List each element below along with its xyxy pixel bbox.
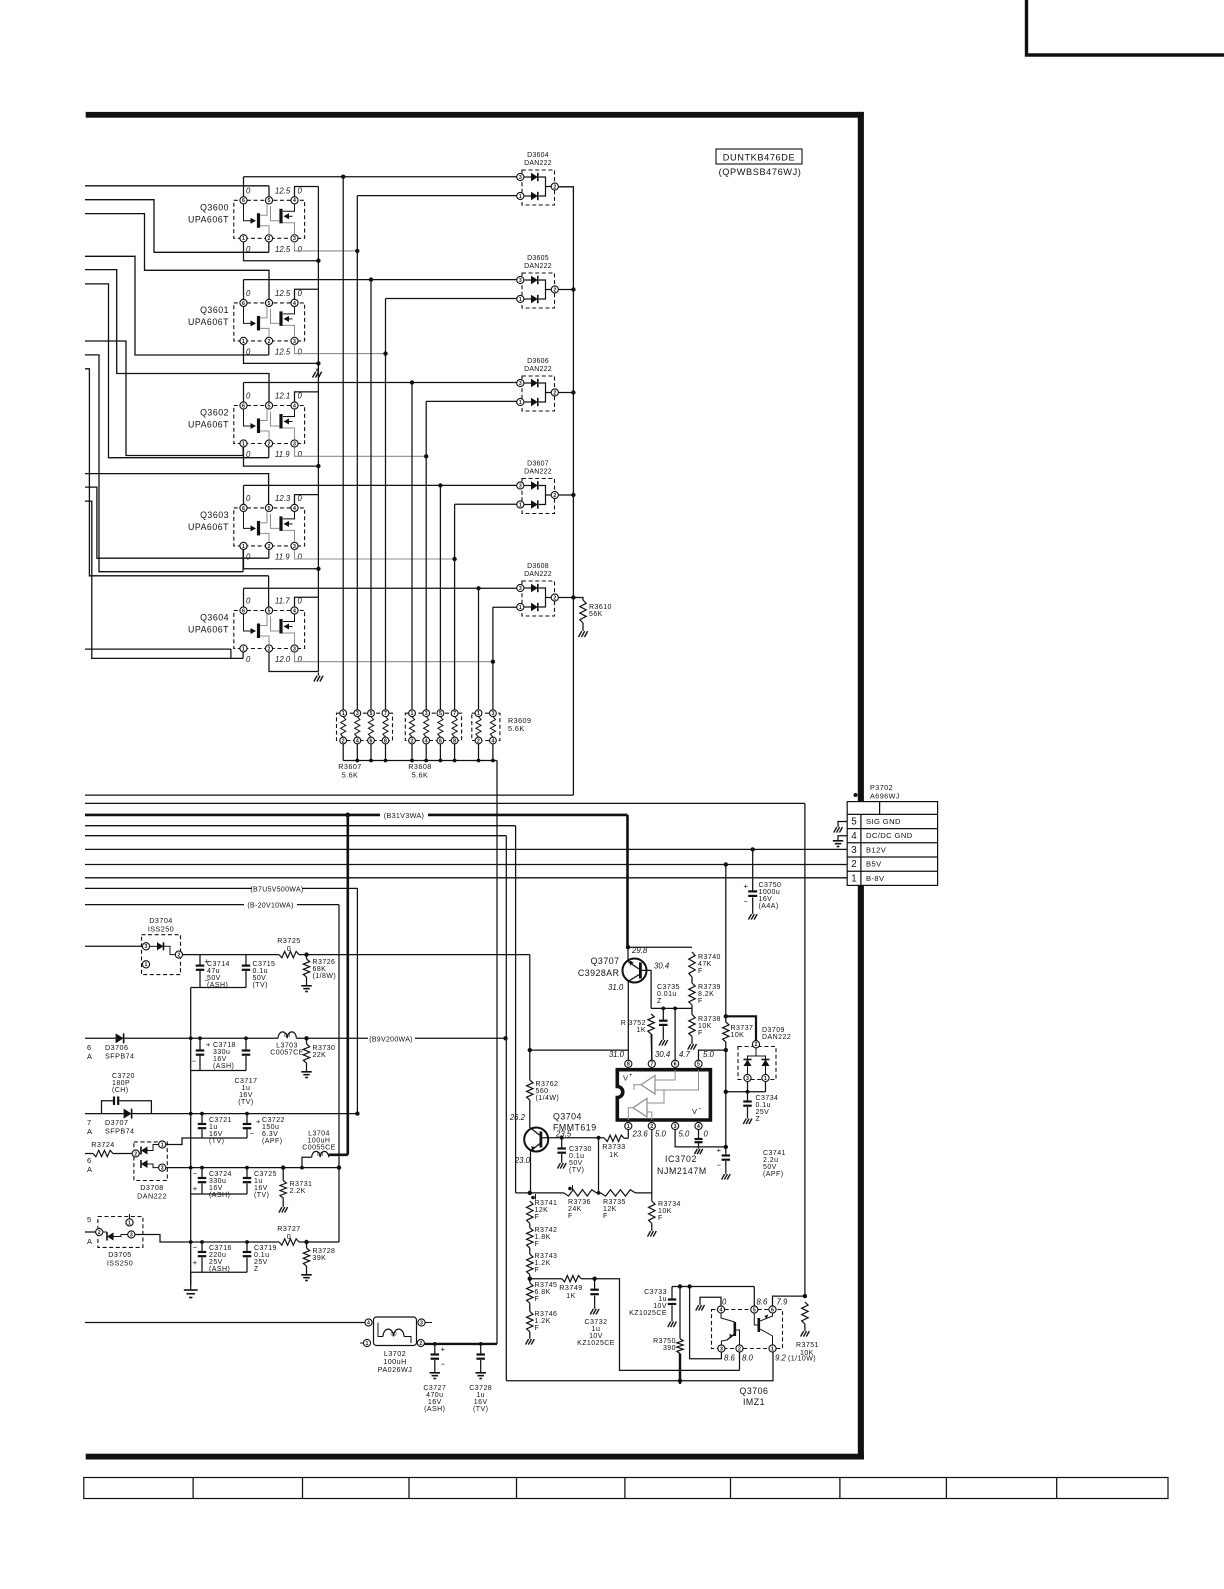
svg-text:00: 00 (390, 1331, 396, 1337)
capacitor C3735 0.01u (662, 1008, 664, 1020)
svg-text:1: 1 (242, 441, 245, 447)
svg-text:5: 5 (439, 711, 442, 717)
svg-text:5.0: 5.0 (679, 1130, 691, 1139)
svg-text:DAN222: DAN222 (524, 366, 552, 373)
capacitor C3732 1u (592, 1277, 596, 1281)
wire B-20V drop (338, 905, 340, 1242)
junction at D3709 feed (724, 1014, 728, 1018)
wire left entry lower to Q3604 area (85, 648, 231, 650)
svg-text:−: − (717, 1161, 722, 1170)
svg-text:−: − (250, 1129, 255, 1138)
svg-text:3: 3 (293, 544, 296, 550)
resistor R3728 39K (304, 1240, 308, 1244)
op-amp IC3702 NJM2147M (617, 1070, 710, 1120)
svg-text:2: 2 (553, 493, 556, 499)
svg-text:UPA606T: UPA606T (188, 625, 229, 635)
svg-text:F: F (603, 1213, 608, 1220)
svg-text:0: 0 (298, 245, 303, 254)
top-right corner box (1027, 0, 1224, 55)
svg-text:1u: 1u (209, 1124, 218, 1131)
svg-text:2: 2 (98, 1230, 101, 1236)
wire R3750 thick lead (679, 1354, 681, 1385)
wire Q3600 pin3 to bus (grey) (295, 242, 358, 251)
svg-text:A: A (87, 1127, 92, 1136)
svg-text:1u: 1u (254, 1178, 263, 1185)
wire D3608 pin2 to output bus (558, 597, 573, 599)
svg-text:6.3V: 6.3V (262, 1131, 278, 1138)
svg-text:6.8K: 6.8K (535, 1289, 551, 1296)
svg-text:1: 1 (128, 1220, 131, 1226)
svg-text:16V: 16V (759, 896, 773, 903)
svg-text:C3727: C3727 (423, 1385, 446, 1392)
svg-text:2: 2 (342, 738, 345, 744)
svg-text:0: 0 (298, 186, 303, 195)
svg-text:1: 1 (242, 646, 245, 652)
resistor R3750 390 (679, 1287, 681, 1339)
svg-text:0: 0 (298, 450, 303, 459)
svg-text:R3745: R3745 (535, 1282, 558, 1289)
diode block D3705 ISS250 (96, 1214, 143, 1247)
svg-text:4: 4 (293, 403, 296, 409)
svg-text:(B-20V10WA): (B-20V10WA) (247, 903, 293, 910)
ground below R3730 (306, 1068, 308, 1072)
svg-text:1K: 1K (609, 1150, 619, 1159)
svg-text:1: 1 (771, 1346, 774, 1352)
svg-text:3: 3 (519, 586, 522, 592)
svg-text:C0057CE: C0057CE (270, 1050, 304, 1057)
svg-text:KZ1025CE: KZ1025CE (629, 1310, 667, 1317)
transistor Q3707 C3928AR (623, 947, 652, 1050)
ground below R3731 (282, 1204, 284, 1207)
wire resistor network bottom bus (343, 745, 497, 763)
annotation dots (531, 1196, 535, 1200)
svg-text:R3731: R3731 (290, 1181, 313, 1188)
svg-text:(TV): (TV) (473, 1406, 488, 1413)
wire Q3604 pin3 to bus (grey) (295, 652, 493, 662)
svg-text:Q3706: Q3706 (740, 1386, 769, 1396)
svg-text:D3709: D3709 (762, 1027, 785, 1034)
resistor R3730 22K (304, 1036, 308, 1040)
wire common gate bus v318 (317, 187, 319, 672)
capacitor C3721 1u (200, 1112, 204, 1116)
wire B5V drop to R3737 (724, 862, 728, 866)
svg-text:150u: 150u (262, 1124, 279, 1131)
wire Q3601 pin4 stub (295, 289, 319, 299)
svg-text:16V: 16V (209, 1131, 223, 1138)
svg-text:C3721: C3721 (209, 1117, 232, 1124)
svg-text:10V: 10V (589, 1333, 603, 1340)
svg-text:2: 2 (650, 1124, 653, 1130)
transistor Q3601 UPA606T block (234, 299, 305, 344)
resistor network R3609 5.6K (472, 709, 500, 744)
svg-text:3: 3 (519, 483, 522, 489)
svg-text:1: 1 (519, 194, 522, 200)
svg-text:330u: 330u (213, 1049, 230, 1056)
svg-text:1K: 1K (566, 1291, 576, 1300)
wire L3702 output row (thick) (424, 1343, 497, 1345)
ground earth at P3702 pin4 (837, 837, 839, 841)
svg-text:11.7: 11.7 (275, 597, 290, 606)
svg-text:(1/8W): (1/8W) (313, 973, 337, 980)
svg-text:50V: 50V (207, 975, 221, 982)
svg-text:470u: 470u (426, 1392, 443, 1399)
svg-text:(TV): (TV) (254, 1192, 269, 1199)
ground below cap column (190, 1285, 192, 1290)
svg-text:330u: 330u (209, 1178, 226, 1185)
svg-text:(TV): (TV) (569, 1167, 584, 1174)
svg-text:1: 1 (627, 1124, 630, 1130)
capacitor C3717 1u (244, 1036, 248, 1040)
svg-text:3: 3 (293, 646, 296, 652)
capacitor C3750 1000u (751, 847, 755, 851)
wire C3721 rail (191, 1113, 358, 1115)
svg-text:7: 7 (384, 711, 387, 717)
svg-text:4: 4 (293, 301, 296, 307)
svg-text:30.4: 30.4 (654, 962, 670, 971)
capacitor C3728 1u (479, 1342, 483, 1346)
svg-text:+: + (256, 1117, 261, 1126)
wire C3733 node row (672, 1286, 754, 1288)
svg-text:1: 1 (161, 1142, 164, 1148)
svg-text:0: 0 (246, 655, 251, 664)
junction dot near P3702 (854, 793, 858, 797)
svg-text:+: + (717, 1146, 722, 1155)
svg-text:R3730: R3730 (313, 1045, 336, 1052)
transistor Q3600 UPA606T block (234, 197, 305, 242)
svg-text:(TV): (TV) (209, 1138, 224, 1145)
inductor L3702 100uH PA026WJ (360, 1317, 432, 1347)
wire rail to diode bus (85, 794, 573, 796)
ground below R3751 (804, 1328, 806, 1331)
svg-text:(QPWBSB476WJ): (QPWBSB476WJ) (719, 167, 802, 177)
resistor R3736 24K (564, 1190, 597, 1196)
wire pin5 stem (753, 1287, 755, 1306)
svg-text:C3728: C3728 (469, 1385, 492, 1392)
svg-text:12.1: 12.1 (275, 392, 290, 401)
svg-text:00: 00 (284, 1033, 290, 1039)
svg-text:0: 0 (246, 186, 251, 195)
svg-text:1: 1 (242, 544, 245, 550)
wire rail to Q3706 loop (85, 835, 506, 837)
svg-text:1: 1 (519, 502, 522, 508)
svg-text:SFPB74: SFPB74 (105, 1127, 134, 1136)
svg-text:47u: 47u (207, 968, 220, 975)
resistor R3727 0 (279, 1239, 299, 1245)
svg-text:4: 4 (425, 738, 428, 744)
junction Q3707 emitter node (626, 945, 630, 949)
svg-text:SIG GND: SIG GND (866, 817, 901, 826)
svg-text:5: 5 (268, 301, 271, 307)
svg-text:1: 1 (477, 711, 480, 717)
svg-text:50V: 50V (763, 1164, 777, 1171)
svg-text:D3604: D3604 (527, 152, 549, 159)
resistor R3726 68K (304, 952, 308, 956)
svg-text:6: 6 (242, 506, 245, 512)
connector P3702 A696WJ (847, 802, 937, 886)
svg-text:KZ1025CE: KZ1025CE (577, 1340, 615, 1347)
ground chassis at P3702 pin5 (837, 824, 839, 827)
svg-text:(TV): (TV) (253, 982, 268, 989)
svg-text:9.2: 9.2 (775, 1354, 787, 1363)
capacitor C3722 150u (245, 1112, 249, 1116)
transistor Q3602 UPA606T block (234, 402, 305, 447)
ground below pin4 (698, 1146, 700, 1149)
svg-text:10K: 10K (658, 1208, 672, 1215)
transistor Q3604 UPA606T block (234, 607, 305, 652)
svg-text:Q3704: Q3704 (553, 1112, 582, 1122)
svg-text:6: 6 (242, 403, 245, 409)
ground below C3730 (561, 1160, 563, 1163)
svg-text:1: 1 (519, 605, 522, 611)
wire cap bottoms C3714/C3715 (191, 987, 246, 989)
svg-text:6: 6 (242, 301, 245, 307)
svg-text:8.6: 8.6 (757, 1298, 769, 1307)
resistor R3752 1K (648, 1014, 654, 1034)
transistor Q3603 UPA606T block (234, 504, 305, 549)
svg-text:C3720: C3720 (112, 1073, 135, 1080)
svg-text:5.6K: 5.6K (412, 771, 429, 780)
svg-text:29.8: 29.8 (631, 946, 648, 955)
wire Q3603 pin6 to D3607 pin3 (243, 485, 245, 504)
svg-text:R3762: R3762 (536, 1081, 559, 1088)
svg-text:2: 2 (134, 1151, 137, 1157)
transistor Q3704 FMMT619 (524, 1128, 562, 1193)
svg-text:2: 2 (411, 738, 414, 744)
resistor R3749 1K (530, 1278, 562, 1280)
page border frame right bar (858, 112, 864, 1460)
svg-text:3: 3 (746, 1076, 749, 1082)
svg-text:16V: 16V (474, 1399, 488, 1406)
svg-text:1.2K: 1.2K (535, 1260, 551, 1267)
resistor R3725 0 (279, 951, 299, 957)
svg-text:DAN222: DAN222 (137, 1192, 167, 1201)
svg-text:7.9: 7.9 (777, 1298, 789, 1307)
svg-text:3: 3 (851, 845, 857, 856)
svg-text:B-8V: B-8V (866, 874, 885, 883)
svg-text:(B9V200WA): (B9V200WA) (369, 1036, 413, 1043)
svg-text:0.1u: 0.1u (756, 1102, 771, 1109)
svg-text:(B7U5V500WA): (B7U5V500WA) (250, 886, 303, 893)
svg-text:1: 1 (764, 1076, 767, 1082)
svg-text:16V: 16V (209, 1185, 223, 1192)
diode block D3709 DAN222 (738, 1041, 776, 1082)
wire C3724 rail (166, 1167, 339, 1169)
svg-text:(APF): (APF) (763, 1171, 784, 1178)
junction B9V to drop (503, 1036, 507, 1040)
svg-text:5: 5 (268, 608, 271, 614)
svg-text:2: 2 (268, 236, 271, 242)
svg-text:2: 2 (553, 287, 556, 293)
svg-text:10K: 10K (800, 1350, 814, 1357)
svg-text:6: 6 (439, 738, 442, 744)
wire D3708 pin1 up to cap row (166, 1138, 191, 1145)
svg-text:1.2K: 1.2K (535, 1318, 551, 1325)
svg-text:3: 3 (420, 1320, 423, 1326)
page border frame top bar (86, 112, 864, 118)
wire B31V thick drop to Q3707 (626, 815, 629, 947)
svg-text:DC/DC GND: DC/DC GND (866, 831, 913, 840)
svg-text:8: 8 (384, 738, 387, 744)
svg-text:R 3752: R 3752 (621, 1020, 646, 1027)
svg-text:1: 1 (242, 236, 245, 242)
svg-text:68K: 68K (313, 966, 327, 973)
svg-text:3: 3 (519, 175, 522, 181)
svg-text:D3605: D3605 (527, 255, 549, 262)
svg-text:DAN222: DAN222 (524, 571, 552, 578)
wire Q3602 pin1 stub (244, 447, 319, 466)
wire pin5 row (699, 1050, 726, 1060)
svg-text:R3728: R3728 (313, 1248, 336, 1255)
wire pin3 row (675, 1130, 726, 1147)
svg-text:3: 3 (356, 711, 359, 717)
wire to R3610 (573, 598, 583, 601)
resistor R3734 10K (649, 1201, 655, 1224)
wire Q3603 pin4 stub (295, 495, 319, 505)
svg-text:2: 2 (851, 859, 856, 870)
svg-text:25V: 25V (209, 1259, 223, 1266)
svg-text:F: F (698, 968, 703, 975)
svg-text:50V: 50V (569, 1160, 583, 1167)
svg-text:8: 8 (453, 738, 456, 744)
wire rail SIG line (85, 802, 805, 804)
ground below R3610 (582, 628, 584, 631)
svg-text:Z: Z (254, 1266, 259, 1273)
resistor network R3608 5.6K (405, 709, 461, 744)
svg-text:4.7: 4.7 (679, 1050, 691, 1059)
wire C3714 rail (183, 954, 280, 956)
svg-text:Q3707: Q3707 (591, 956, 620, 966)
wire bus to D3607 pin1 (455, 503, 517, 505)
wire C3714-rail drop to collector node (529, 955, 531, 1051)
resistor R3738 10K (689, 1015, 695, 1037)
wire left entry stair to Q3604 pin5 (85, 369, 269, 576)
wire node to IC pin6 (674, 1008, 676, 1060)
svg-text:C3741: C3741 (763, 1150, 786, 1157)
svg-text:C3715: C3715 (253, 961, 276, 968)
svg-text:R3610: R3610 (589, 604, 612, 611)
svg-text:−: − (193, 1169, 198, 1178)
svg-text:F: F (535, 1325, 540, 1332)
svg-text:16V: 16V (213, 1056, 227, 1063)
svg-text:Q3603: Q3603 (200, 510, 229, 520)
svg-text:4: 4 (367, 1320, 370, 1326)
svg-text:3: 3 (293, 236, 296, 242)
capacitor C3733 1u (671, 1287, 673, 1300)
svg-text:2.2K: 2.2K (290, 1188, 306, 1195)
wire left entry stair to Q3603 pin1 (85, 355, 243, 572)
svg-text:0: 0 (246, 552, 251, 561)
wire pin6 to SIG drop (773, 1296, 805, 1306)
svg-text:5: 5 (268, 506, 271, 512)
svg-text:25V: 25V (756, 1109, 770, 1116)
svg-text:11.9: 11.9 (275, 552, 290, 561)
wire left entry stair to Q3600 pin2 (85, 200, 269, 253)
svg-text:4: 4 (851, 831, 857, 842)
wire pin1 stem to R3733 (627, 1130, 629, 1139)
svg-text:2: 2 (268, 646, 271, 652)
resistor R3740 47K (689, 952, 695, 977)
ground below C3734 (747, 1116, 749, 1119)
svg-text:C3928AR: C3928AR (578, 968, 620, 978)
junction dots on bus lines (341, 175, 495, 664)
svg-text:3: 3 (293, 339, 296, 345)
svg-text:A: A (87, 1165, 92, 1174)
wire pin2 lead (739, 1352, 741, 1370)
svg-text:R3726: R3726 (313, 959, 336, 966)
svg-text:2.2u: 2.2u (763, 1157, 778, 1164)
wire rail-825 drop (515, 826, 517, 1193)
svg-text:6: 6 (242, 608, 245, 614)
svg-text:1u: 1u (242, 1085, 251, 1092)
wire Q3601 pin6 to D3605 pin3 (243, 280, 245, 300)
svg-text:0: 0 (246, 392, 251, 401)
resistor network R3607 5.6K (337, 709, 393, 744)
svg-text:+: + (193, 1184, 198, 1193)
svg-text:3: 3 (130, 1232, 133, 1238)
svg-text:2: 2 (553, 184, 556, 190)
svg-text:23.0: 23.0 (514, 1156, 531, 1165)
svg-text:C0055CE: C0055CE (302, 1145, 336, 1152)
capacitor C3716 220u (200, 1240, 204, 1244)
svg-text:−: − (744, 897, 749, 906)
svg-text:6: 6 (87, 1156, 92, 1165)
svg-text:0: 0 (246, 494, 251, 503)
svg-text:C3730: C3730 (569, 1146, 592, 1153)
wire bus to D3604 pin1 (357, 195, 517, 197)
svg-text:5.0: 5.0 (703, 1050, 715, 1059)
capacitor C3718 330u (198, 1036, 202, 1040)
svg-text:2: 2 (177, 952, 180, 958)
svg-text:2: 2 (268, 339, 271, 345)
diode D3604 DAN222 block (517, 170, 559, 205)
svg-text:(1/4W): (1/4W) (536, 1095, 560, 1102)
svg-text:2: 2 (268, 544, 271, 550)
svg-text:C3725: C3725 (254, 1171, 277, 1178)
svg-text:5: 5 (268, 198, 271, 204)
svg-text:12.5: 12.5 (275, 186, 291, 195)
svg-text:560: 560 (536, 1088, 549, 1095)
resistor R3737 10K (723, 1022, 729, 1042)
svg-text:ISS250: ISS250 (148, 925, 174, 934)
svg-text:5: 5 (753, 1307, 756, 1313)
ground below R3734 (651, 1228, 653, 1231)
svg-text:0: 0 (287, 944, 291, 953)
ground below R3726 (306, 982, 308, 986)
wire rail B-20V10WA (85, 904, 244, 906)
svg-text:C3719: C3719 (254, 1245, 277, 1252)
svg-text:390: 390 (663, 1345, 676, 1352)
resistor R3742 1.8K (529, 1224, 531, 1228)
svg-text:23.6: 23.6 (632, 1130, 649, 1139)
svg-text:2: 2 (268, 441, 271, 447)
svg-text:180P: 180P (112, 1080, 130, 1087)
svg-text:NJM2147M: NJM2147M (657, 1166, 707, 1176)
svg-text:2: 2 (553, 595, 556, 601)
wire D3607 pin2 to output bus (558, 494, 573, 496)
svg-text:0: 0 (246, 597, 251, 606)
ground below C3735 (662, 1037, 664, 1040)
wire Q3603 pin3 to bus (grey) (295, 550, 455, 560)
wire R-chain rail (516, 1192, 530, 1194)
capacitor C3734 0.1u (747, 1092, 749, 1102)
svg-text:(CH): (CH) (112, 1087, 129, 1094)
svg-text:(B31V3WA): (B31V3WA) (384, 811, 424, 820)
wire left entry stair to Q3604 pin1 (85, 501, 243, 658)
resistor R3733 1K (605, 1135, 625, 1141)
wire D3605 pin2 to output bus (558, 289, 573, 291)
svg-text:2: 2 (477, 738, 480, 744)
ground at Q3706 pin4 (699, 1302, 701, 1305)
